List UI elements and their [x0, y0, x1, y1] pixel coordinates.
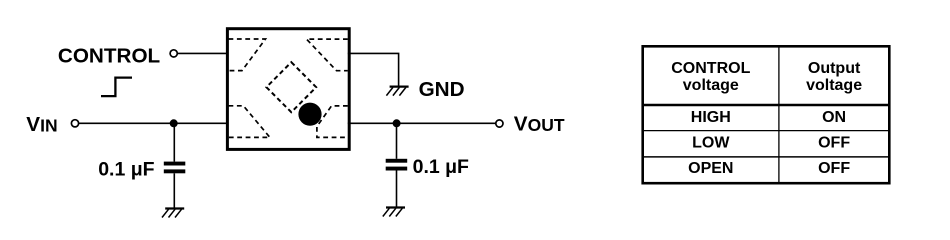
- VOUT output terminal: [496, 120, 503, 127]
- svg-text:OFF: OFF: [818, 135, 850, 152]
- junction node VIN/C1: [170, 119, 178, 127]
- ground (GND pin): [386, 87, 408, 96]
- truth table column divider: [778, 46, 780, 183]
- wire C1 to ground: [173, 173, 175, 208]
- wire C2 to ground: [396, 171, 398, 207]
- CONTROL input terminal: [170, 50, 177, 57]
- wire CONTROL to IC: [178, 52, 229, 54]
- wire junction to C1: [173, 123, 175, 161]
- VIN input terminal: [71, 120, 78, 127]
- svg-text:GND: GND: [419, 78, 465, 101]
- U1 pin A1 ball indicator: [298, 103, 321, 126]
- svg-text:Output: Output: [808, 60, 861, 77]
- svg-text:HIGH: HIGH: [691, 109, 731, 126]
- U1 corner pad top-left (dashed): [229, 39, 266, 71]
- capacitor C1 0.1uF: [164, 162, 186, 174]
- svg-text:CONTROL: CONTROL: [671, 60, 750, 77]
- truth table header separator: [643, 104, 890, 107]
- svg-text:ON: ON: [822, 109, 846, 126]
- wire IC to GND: [348, 53, 399, 85]
- U1 center diamond (dashed): [266, 62, 316, 112]
- truth table frame: [643, 46, 890, 183]
- svg-text:voltage: voltage: [683, 77, 739, 94]
- IC U1 load switch (chip-scale package outline): [227, 29, 349, 150]
- truth table row line 2: [643, 156, 890, 158]
- wire VIN to IC: [79, 122, 229, 124]
- svg-text:OPEN: OPEN: [688, 160, 733, 177]
- rising-edge step symbol: [101, 78, 132, 97]
- svg-text:voltage: voltage: [806, 77, 862, 94]
- wire IC to VOUT: [348, 122, 496, 124]
- ground (C1): [162, 209, 184, 218]
- U1 corner pad top-right (dashed): [307, 39, 348, 71]
- svg-text:0.1 μF: 0.1 μF: [413, 156, 469, 178]
- ground (C2): [383, 208, 405, 217]
- svg-text:OFF: OFF: [818, 160, 850, 177]
- U1 corner pad bottom-right (dashed): [317, 106, 348, 137]
- U1 corner pad bottom-left (dashed): [229, 106, 270, 138]
- svg-text:VOUT: VOUT: [514, 112, 565, 135]
- svg-text:VIN: VIN: [26, 113, 57, 136]
- truth table row line 1: [643, 130, 890, 132]
- svg-text:CONTROL: CONTROL: [58, 44, 160, 67]
- junction node VOUT/C2: [393, 119, 401, 127]
- wire junction to C2: [396, 123, 398, 159]
- capacitor C2 0.1uF: [386, 159, 408, 171]
- svg-text:LOW: LOW: [692, 135, 730, 152]
- svg-text:0.1 μF: 0.1 μF: [98, 158, 154, 180]
